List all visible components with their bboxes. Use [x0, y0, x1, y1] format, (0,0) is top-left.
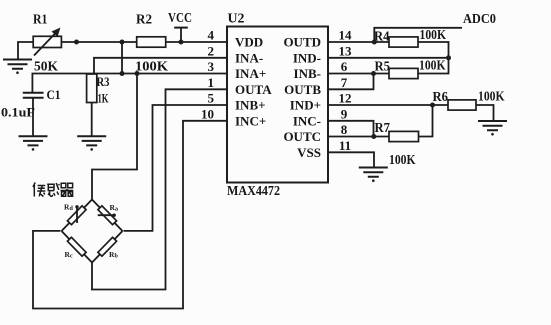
- svg-text:5: 5: [208, 91, 215, 106]
- svg-text:VDD: VDD: [235, 35, 263, 50]
- svg-text:1: 1: [208, 75, 215, 90]
- resistor R5 (100K): [375, 59, 446, 79]
- resistor R7: [375, 121, 419, 142]
- wire R7 right up to pin12 node: [419, 105, 433, 137]
- resistor R4 (100K): [374, 28, 446, 47]
- svg-text:R6: R6: [433, 90, 449, 105]
- svg-text:OUTD: OUTD: [283, 35, 321, 50]
- svg-text:IND+: IND+: [290, 98, 321, 113]
- wire R1 left to ground: [18, 42, 33, 59]
- svg-text:100K: 100K: [478, 89, 505, 104]
- svg-text:R5: R5: [375, 60, 391, 75]
- junction dot: [120, 71, 125, 76]
- ground (R6): [478, 121, 507, 136]
- wire pin 14 (OUTD) to R4: [328, 41, 389, 43]
- svg-text:2: 2: [208, 43, 215, 58]
- resistor R6 (100K): [433, 89, 505, 110]
- wire INC+ (pin 10) to bridge left vertex: [33, 121, 227, 309]
- wire R3 bottom to ground: [91, 103, 93, 136]
- junction dot: [371, 71, 376, 76]
- wire pin 6 (INB-) to R5: [328, 73, 389, 75]
- svg-text:OUTA: OUTA: [235, 82, 272, 97]
- bridge resistor Rb (lower-right arm): [98, 237, 119, 259]
- svg-text:6: 6: [341, 59, 348, 74]
- svg-text:IND-: IND-: [293, 50, 321, 65]
- wire pin 12 (IND+) to R6: [328, 104, 448, 106]
- bridge resistor Rd (upper-left arm): [64, 203, 86, 225]
- svg-text:7: 7: [341, 75, 348, 90]
- svg-text:4: 4: [208, 28, 215, 43]
- svg-text:C1: C1: [47, 87, 61, 102]
- svg-text:a: a: [115, 206, 118, 212]
- VCC power symbol: [168, 11, 192, 42]
- junction dot: [430, 103, 435, 108]
- bridge resistor Rc (lower-left arm): [65, 237, 87, 259]
- sensor label 传感器: [33, 183, 73, 197]
- svg-text:OUTC: OUTC: [283, 129, 321, 144]
- svg-text:R2: R2: [136, 13, 152, 28]
- svg-text:8: 8: [341, 122, 348, 137]
- wire R6 right to ground: [476, 105, 494, 120]
- svg-text:b: b: [115, 254, 119, 260]
- svg-text:R3: R3: [97, 74, 110, 89]
- svg-text:INA+: INA+: [235, 66, 266, 81]
- ground (C1): [19, 136, 48, 151]
- ground (R3): [77, 136, 106, 151]
- svg-text:12: 12: [339, 91, 352, 106]
- svg-text:100K: 100K: [389, 153, 416, 168]
- svg-text:9: 9: [341, 106, 348, 121]
- op-amp U2 MAX4472 IC body: [227, 12, 328, 200]
- capacitor C1 (0.1uF): [1, 87, 61, 119]
- wire INB+ (pin 5) to bridge right vertex: [124, 105, 228, 231]
- junction dot: [371, 134, 376, 139]
- wire INA+ (pin 3): [32, 74, 227, 93]
- resistor R1 (potentiometer 50K): [33, 13, 61, 75]
- bridge arm wire top-right: [92, 200, 123, 232]
- wire pin 11 (VSS) to ground: [328, 152, 374, 166]
- svg-text:R1: R1: [33, 13, 48, 28]
- resistor R3 (1K): [87, 74, 110, 106]
- ground (VSS) with 100K label: [359, 153, 416, 182]
- wire node A : R1 right to IC pin4: [61, 41, 227, 43]
- svg-text:R7: R7: [375, 121, 391, 136]
- svg-text:OUTB: OUTB: [284, 82, 321, 97]
- bridge arm wire bottom-left: [62, 231, 93, 263]
- svg-text:100K: 100K: [420, 28, 447, 43]
- junction dot: [135, 71, 140, 76]
- svg-text:d: d: [70, 206, 74, 212]
- svg-text:11: 11: [339, 138, 351, 153]
- junction dot: [179, 40, 184, 45]
- svg-text:0.1uF: 0.1uF: [1, 105, 35, 120]
- svg-text:VSS: VSS: [297, 145, 321, 160]
- svg-text:R4: R4: [374, 30, 390, 45]
- svg-text:3: 3: [208, 59, 215, 74]
- svg-text:14: 14: [339, 28, 353, 43]
- svg-text:ADC0: ADC0: [463, 12, 496, 27]
- svg-text:100K: 100K: [419, 59, 446, 74]
- svg-text:INC+: INC+: [235, 113, 266, 128]
- svg-text:VCC: VCC: [168, 11, 192, 26]
- wire pin 7 (OUTB) up to R5 left: [328, 74, 374, 90]
- svg-text:INB-: INB-: [294, 66, 321, 81]
- ground (R1): [3, 60, 32, 75]
- wire INA- (pin 2) to R3: [94, 58, 227, 74]
- svg-text:10: 10: [201, 106, 214, 121]
- svg-text:INA-: INA-: [235, 50, 263, 65]
- svg-text:1K: 1K: [98, 91, 110, 106]
- svg-text:INC-: INC-: [293, 113, 321, 128]
- junction dot: [120, 40, 125, 45]
- svg-text:100K: 100K: [135, 60, 168, 75]
- wire pin 13 (IND-): [328, 57, 449, 59]
- junction dot: [372, 40, 377, 45]
- resistor R2 (100K): [135, 13, 168, 75]
- wire C1 bottom to ground: [32, 98, 34, 136]
- bridge arm wire top-left: [62, 200, 93, 232]
- svg-text:13: 13: [339, 43, 353, 58]
- svg-text:U2: U2: [228, 12, 245, 27]
- bridge arm wire bottom-right: [92, 231, 123, 263]
- wire vertical node A to INA+ wire: [121, 42, 123, 74]
- wire INA+ branch to bridge top vertex: [92, 74, 137, 201]
- svg-text:50K: 50K: [34, 60, 58, 75]
- wire pin 8 (OUTC) to R7: [328, 136, 389, 138]
- wire OUTA (pin 1) to bridge bottom: [91, 89, 227, 289]
- svg-text:c: c: [70, 254, 73, 260]
- wire R4 right down to R5 right: [418, 42, 449, 74]
- svg-text:MAX4472: MAX4472: [227, 184, 280, 199]
- wire pin 9 (INC-) down to R7 left: [328, 121, 374, 137]
- bridge resistor Ra (upper-right arm): [98, 203, 118, 225]
- node ADC0 output line: [374, 12, 496, 42]
- wire bridge bottom vertex down: [91, 262, 93, 290]
- junction dot: [74, 40, 79, 45]
- svg-text:INB+: INB+: [235, 98, 266, 113]
- junction dot: [446, 55, 451, 60]
